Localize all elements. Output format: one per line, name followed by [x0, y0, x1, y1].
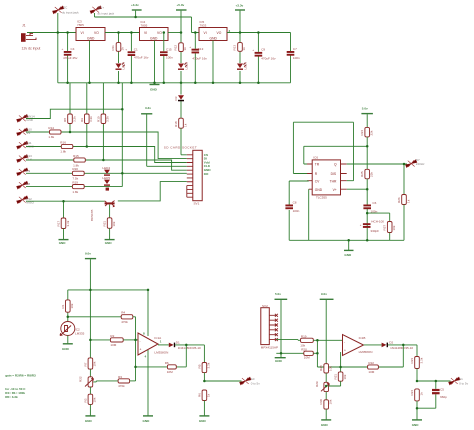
resistor R24p output bottom	[410, 389, 423, 420]
svg-text:+: +	[252, 48, 254, 52]
wire LM335 node row	[68, 316, 121, 318]
pin D13 CLK	[17, 154, 33, 162]
svg-text:10M: 10M	[110, 343, 116, 347]
svg-text:D8: D8	[26, 182, 30, 186]
resistor R13 with LED6 indicator column on +3.3v rail	[233, 33, 247, 83]
pin DC- dc input jack	[53, 6, 80, 15]
ground symbol under LM335	[62, 344, 73, 351]
svg-text:3.3k: 3.3k	[66, 220, 70, 226]
wire IC4 output to +5.0v rail	[168, 32, 181, 34]
svg-text:10k: 10k	[93, 397, 97, 402]
svg-text:GND: GND	[199, 419, 207, 423]
svg-text:R12: R12	[174, 45, 178, 51]
svg-text:+: +	[344, 348, 346, 352]
svg-text:470uF 16v: 470uF 16v	[134, 56, 149, 60]
svg-text:SS: SS	[26, 131, 30, 135]
svg-text:LED5: LED5	[102, 176, 110, 180]
ground symbol under R21	[105, 240, 115, 246]
svg-text:R11: R11	[111, 45, 115, 51]
capacitor C10 470uF 16v on IC5 input	[189, 33, 207, 83]
wire D12 MISO to transistor	[26, 200, 105, 202]
pin D7 220Hz	[406, 158, 425, 167]
svg-text:GND: GND	[315, 188, 323, 192]
svg-text:D1: D1	[176, 341, 180, 345]
svg-text:GND: GND	[105, 241, 113, 245]
svg-text:+3.3v: +3.3v	[236, 3, 244, 7]
svg-text:100n: 100n	[166, 56, 173, 60]
junction dots 555	[366, 145, 369, 148]
resistor R19p 10k input	[300, 334, 342, 347]
junction dots temp block	[89, 289, 92, 292]
svg-text:LED4: LED4	[102, 166, 110, 170]
svg-text:3.3k: 3.3k	[89, 116, 93, 122]
svg-text:GND: GND	[321, 423, 329, 427]
wire 555 output Q to D7	[347, 163, 407, 165]
resistor R25	[347, 169, 374, 189]
svg-text:GND: GND	[275, 359, 283, 363]
svg-text:10k: 10k	[329, 399, 333, 404]
resistor R26 on output	[397, 164, 410, 240]
svg-text:7805: 7805	[77, 23, 84, 27]
resistor R16 1.8k	[26, 140, 187, 162]
svg-text:gain = R2/R6 = R8/R3: gain = R2/R6 = R8/R3	[5, 374, 36, 378]
svg-text:V+: V+	[333, 188, 337, 192]
svg-text:22k: 22k	[370, 130, 374, 135]
wire transistor collector to SD DO pin	[118, 182, 187, 201]
resistor R30 divider bottom pressure	[319, 399, 332, 420]
op-amp IC1A LM358	[138, 290, 168, 416]
svg-text:+: +	[189, 45, 191, 49]
svg-text:R22: R22	[78, 376, 82, 382]
svg-text:R6= 3.3k: R6= 3.3k	[5, 395, 18, 399]
resistor R10 3.3k pulldown	[96, 83, 109, 160]
svg-text:LM358ON: LM358ON	[359, 350, 373, 354]
svg-text:R1: R1	[61, 304, 65, 308]
resistor R2 10M	[110, 334, 138, 347]
svg-text:Q: Q	[334, 163, 337, 167]
svg-text:C6: C6	[372, 201, 376, 205]
resistor R24	[360, 127, 373, 169]
svg-text:220Hz: 220Hz	[416, 162, 425, 166]
svg-text:1N4148DO35-10: 1N4148DO35-10	[390, 346, 413, 350]
svg-text:LED6: LED6	[244, 62, 248, 70]
svg-text:R7: R7	[83, 362, 87, 366]
capacitor C8 100n on CV	[285, 181, 308, 240]
svg-text:dc input jack: dc input jack	[98, 11, 115, 15]
LED LED2	[178, 62, 189, 70]
svg-text:-: -	[140, 339, 141, 343]
svg-text:660p: 660p	[440, 395, 447, 399]
op-amp IC1B LM358	[343, 335, 373, 356]
resistor R19 1.8k	[26, 181, 122, 194]
svg-text:+: +	[140, 347, 142, 351]
svg-text:3.3k: 3.3k	[419, 357, 423, 363]
resistor R27 trim branch	[383, 222, 396, 241]
svg-text:10M: 10M	[167, 370, 173, 374]
svg-text:470k: 470k	[121, 320, 128, 324]
svg-text:GND: GND	[150, 88, 158, 92]
svg-text:C4: C4	[71, 47, 75, 51]
svg-text:C9: C9	[261, 48, 265, 52]
svg-text:+: +	[62, 47, 64, 51]
resistor R4 470k	[121, 311, 135, 324]
svg-text:R29: R29	[315, 381, 319, 387]
ground symbol under R24p	[412, 420, 422, 427]
wire to A1 output pin	[417, 380, 451, 382]
capacitor C4 470uF 25v	[62, 33, 78, 83]
svg-text:1.8k: 1.8k	[60, 150, 66, 154]
wire IC5 output to +3.3v rail	[227, 32, 291, 34]
svg-text:470uF 16v: 470uF 16v	[261, 56, 276, 60]
svg-text:HCH-100: HCH-100	[371, 219, 384, 223]
sensor connector SV2 MPX4115AP	[261, 304, 278, 350]
trimmer R29 pressure offset pot	[315, 381, 340, 400]
wire SV2 output to R19p row	[276, 339, 300, 342]
svg-text:R18: R18	[174, 121, 178, 127]
pin A0 0 to 5v	[240, 377, 261, 385]
svg-text:R23: R23	[410, 358, 414, 364]
svg-text:10k: 10k	[112, 221, 116, 226]
svg-text:12v dc input: 12v dc input	[22, 46, 41, 50]
svg-text:R10: R10	[96, 116, 100, 122]
svg-text:470k: 470k	[118, 384, 125, 388]
svg-text:R3: R3	[118, 375, 122, 379]
pin PIN14 GND	[17, 114, 35, 122]
power +3.3v supply symbol (left)	[131, 3, 142, 17]
svg-text:5.0v: 5.0v	[362, 106, 368, 110]
resistor R3v divider bottom	[83, 394, 96, 415]
ground symbol under IC1A	[143, 416, 154, 423]
wire feedback loop pressure	[402, 345, 404, 367]
resistor R5	[197, 345, 210, 381]
svg-text:D9: D9	[26, 169, 30, 173]
annotation notes green	[5, 374, 36, 400]
wire inverting node vertical pressure	[316, 340, 318, 367]
svg-text:C15: C15	[166, 47, 172, 51]
wire IC4 GND pin to ground symbol	[154, 41, 156, 85]
svg-text:100n: 100n	[293, 209, 300, 213]
LED LED4	[102, 166, 110, 176]
svg-text:1.8k: 1.8k	[72, 190, 78, 194]
resistor R17	[57, 201, 70, 239]
wire SV2 gnd pin down	[276, 341, 281, 354]
local ground bus 555	[289, 239, 404, 241]
svg-text:5.0v: 5.0v	[275, 292, 281, 296]
resistor R1	[61, 290, 74, 322]
resistor R28 divider top pressure	[319, 364, 332, 383]
svg-text:R14: R14	[48, 126, 54, 130]
svg-text:R21: R21	[334, 374, 338, 380]
svg-text:10k: 10k	[392, 225, 396, 230]
svg-text:+: +	[125, 47, 127, 51]
capacitor C6 100n timing	[363, 189, 377, 240]
svg-text:dc input jack: dc input jack	[62, 11, 79, 15]
svg-text:VI: VI	[144, 31, 147, 35]
svg-text:R19: R19	[301, 334, 307, 338]
pin D8	[17, 181, 31, 189]
svg-text:1: 1	[160, 339, 162, 343]
svg-text:R13: R13	[233, 45, 237, 51]
voltage regulator IC3 7805	[76, 19, 105, 40]
svg-text:+5.0v: +5.0v	[177, 3, 185, 7]
svg-text:4: 4	[145, 355, 147, 359]
svg-text:MPX4115AP: MPX4115AP	[261, 346, 278, 350]
capacitor C7 100n	[287, 33, 300, 83]
ground symbol under divider	[85, 416, 96, 423]
voltage regulator IC5 7933	[199, 20, 231, 41]
svg-text:9.0v: 9.0v	[321, 292, 327, 296]
svg-text:8: 8	[143, 331, 145, 335]
junction dots top section	[57, 31, 60, 34]
wire trigger net loop	[304, 146, 367, 164]
ground symbol under R6	[199, 416, 210, 423]
svg-text:R8: R8	[63, 118, 67, 122]
svg-text:10M: 10M	[368, 370, 374, 374]
svg-text:10k: 10k	[93, 361, 97, 366]
LED LED6	[237, 62, 248, 70]
power 5.0v supply symbol for 555	[361, 106, 373, 127]
svg-text:C8: C8	[293, 200, 297, 204]
resistor R18 on SD supply column	[174, 118, 187, 155]
resistor R22p 10M feedback	[317, 361, 403, 374]
wire IC3 output to IC4 input	[105, 32, 140, 34]
svg-text:C1: C1	[134, 47, 138, 51]
resistor R14 1.8k	[26, 126, 187, 159]
wire 555 GND pin down to local ground bus	[308, 189, 310, 240]
svg-text:R16: R16	[60, 140, 66, 144]
svg-text:1k: 1k	[419, 392, 423, 396]
svg-text:VI: VI	[81, 31, 84, 35]
svg-text:1k: 1k	[183, 123, 187, 127]
svg-text:R30: R30	[319, 399, 323, 405]
svg-text:GND: GND	[150, 37, 158, 41]
resistor R12 with LED2 indicator column on +5.0v rail	[174, 43, 188, 83]
svg-text:R27: R27	[383, 225, 387, 231]
svg-text:R28: R28	[319, 365, 323, 371]
ground symbol under IC4	[150, 85, 160, 92]
svg-text:DC+: DC+	[98, 6, 104, 10]
wire threshold net upper loop	[293, 122, 353, 181]
svg-text:CV: CV	[315, 179, 320, 183]
trimmer R22 offset pot	[78, 376, 118, 394]
resistor R9 3.3k pulldown	[80, 83, 93, 147]
svg-text:DIS: DIS	[331, 172, 337, 176]
svg-text:D3: D3	[174, 96, 178, 100]
diode D1 1N4148	[169, 341, 205, 351]
svg-text:C5: C5	[440, 388, 444, 392]
power +3.3v supply symbol (right)	[235, 3, 245, 32]
svg-text:R5: R5	[197, 364, 201, 368]
pin A1 0 to 5v	[449, 377, 469, 385]
svg-text:R24: R24	[410, 390, 414, 396]
svg-text:R15: R15	[73, 154, 79, 158]
svg-text:100n: 100n	[293, 56, 300, 60]
resistor R7 divider top	[83, 358, 96, 377]
svg-text:VO: VO	[157, 31, 162, 35]
capacitor C9 470uF 16v	[252, 33, 276, 83]
svg-text:GND: GND	[85, 419, 93, 423]
resistor R20 7.5k	[26, 167, 187, 180]
svg-text:LM335: LM335	[75, 332, 85, 336]
wire feedback loop down	[185, 345, 187, 367]
svg-text:470uF 16v: 470uF 16v	[192, 56, 207, 60]
junction dots SD section	[121, 108, 124, 111]
svg-text:+: +	[360, 223, 362, 227]
svg-text:+3.3v: +3.3v	[131, 3, 139, 7]
svg-text:R2: R2	[110, 334, 114, 338]
svg-text:IC6: IC6	[313, 156, 318, 160]
svg-text:R22: R22	[368, 361, 374, 365]
transistor Q1 BC547	[90, 201, 115, 221]
svg-text:GND: GND	[143, 419, 151, 423]
connector J1 dc power jack	[21, 23, 40, 50]
voltage regulator IC4 7805	[140, 20, 169, 41]
capacitor C15 100n	[160, 33, 173, 83]
resistor R8 3.3k pulldown	[63, 83, 76, 132]
svg-text:R21: R21	[103, 221, 107, 227]
svg-text:R6: R6	[165, 361, 169, 365]
svg-text:GND: GND	[210, 37, 218, 41]
resistor R21	[103, 218, 116, 239]
LED LED3	[116, 62, 126, 70]
pin D11 MOSI	[17, 141, 35, 149]
svg-text:LM358ON: LM358ON	[154, 351, 168, 355]
svg-text:R25: R25	[360, 171, 364, 177]
svg-text:THR: THR	[330, 179, 337, 183]
diode D2 1N4148	[382, 340, 417, 350]
svg-text:R9: R9	[80, 118, 84, 122]
svg-text:GND: GND	[412, 423, 420, 427]
svg-text:VO: VO	[94, 31, 99, 35]
svg-text:10k: 10k	[329, 366, 333, 371]
svg-text:SV1: SV1	[194, 201, 200, 205]
svg-text:330pF: 330pF	[370, 229, 379, 233]
ground symbol 555	[344, 240, 354, 257]
wire DC+ feed line to IC5 input	[95, 13, 200, 33]
svg-text:R24: R24	[360, 130, 364, 136]
capacitor C1 470uF 16v	[125, 33, 149, 83]
svg-text:R17: R17	[57, 221, 61, 227]
wire inverting node vertical	[135, 317, 137, 381]
LED LED5	[102, 176, 110, 191]
wire 9v rail horizontal	[68, 289, 148, 291]
svg-text:LED2: LED2	[185, 62, 189, 70]
svg-text:VI: VI	[204, 31, 207, 35]
svg-text:SD CARD SOCKET: SD CARD SOCKET	[164, 146, 197, 150]
ground bus horizontal	[58, 82, 291, 84]
ground symbol under pressure divider	[321, 420, 331, 427]
connector SV1 SD card socket	[164, 146, 212, 206]
svg-text:1.8k: 1.8k	[48, 135, 54, 139]
svg-text:D2: D2	[389, 340, 393, 344]
wire ground column from bus to led rows	[121, 83, 123, 187]
svg-text:0 to 5v: 0 to 5v	[251, 381, 261, 385]
svg-text:1k: 1k	[242, 47, 246, 51]
wire R2 input row	[90, 339, 110, 341]
svg-text:GND: GND	[62, 347, 70, 351]
wire PIN14 to ground column	[26, 109, 122, 118]
svg-text:1N4148DO35-10: 1N4148DO35-10	[178, 346, 201, 350]
pin D12 MISO	[17, 196, 35, 205]
resistor R21p offset feed vertical	[328, 352, 347, 386]
timer IC7 TLC555	[307, 156, 347, 200]
svg-text:R4: R4	[121, 311, 125, 315]
wire IC5 GND pin to ground bus	[212, 41, 214, 83]
svg-text:TR: TR	[315, 163, 320, 167]
junction dots pressure block	[316, 339, 319, 342]
wire DC- down to main rail and ground bus	[57, 13, 59, 83]
svg-text:3.3k: 3.3k	[207, 362, 211, 368]
svg-text:1k: 1k	[183, 47, 187, 51]
wire IC1A output row	[158, 344, 169, 346]
resistor R3 470k offset feed	[118, 375, 135, 388]
resistor R20p 10M	[281, 347, 317, 359]
svg-text:22k: 22k	[370, 172, 374, 177]
power 9.0v supply symbol temp block	[85, 252, 96, 358]
ground symbol under SV2	[275, 353, 286, 363]
pin D10 SS	[17, 127, 33, 135]
svg-text:R20: R20	[301, 347, 307, 351]
svg-text:R19: R19	[72, 181, 78, 185]
svg-text:R3: R3	[83, 398, 87, 402]
pin DC+ dc input jack	[90, 6, 115, 16]
power 3.3v supply symbol for SD card	[141, 106, 187, 166]
svg-text:0 to 5v: 0 to 5v	[459, 381, 469, 385]
wire jack to IC3 VI	[27, 32, 76, 34]
svg-text:IC1B: IC1B	[359, 336, 366, 340]
svg-text:9.0v: 9.0v	[85, 252, 91, 256]
svg-text:GND: GND	[59, 241, 67, 245]
svg-text:LED3: LED3	[122, 62, 126, 70]
svg-text:C7: C7	[293, 47, 297, 51]
svg-text:BC547B: BC547B	[90, 210, 94, 221]
resistor R6 output divider	[197, 390, 210, 416]
svg-text:DO: DO	[204, 172, 209, 176]
svg-text:R26: R26	[397, 197, 401, 203]
resistor R6f 10M feedback	[136, 361, 187, 374]
svg-text:1k: 1k	[121, 47, 125, 51]
power 9.0v supply symbol pressure block	[320, 292, 334, 364]
svg-text:C13: C13	[198, 47, 204, 51]
capacitor C11 330pF trim branch	[360, 213, 390, 233]
svg-text:GND: GND	[344, 253, 352, 257]
resistor R15 1.8k	[26, 154, 187, 170]
power 5.0v supply symbol pressure block	[275, 292, 288, 353]
pin D9	[17, 168, 31, 176]
svg-text:3.3k: 3.3k	[106, 116, 110, 122]
svg-text:GND: GND	[87, 37, 95, 41]
svg-text:TLC555: TLC555	[316, 195, 327, 199]
resistor R11 with LED3 indicator column	[111, 33, 125, 83]
svg-text:-: -	[344, 340, 345, 344]
svg-text:10k: 10k	[343, 374, 347, 379]
svg-text:J1: J1	[22, 23, 26, 27]
svg-text:3.3v: 3.3v	[145, 106, 151, 110]
temperature sensor IC2 LM335	[60, 322, 85, 344]
wire to A0 output pin	[204, 380, 241, 382]
wire IC1B output row	[364, 344, 382, 346]
svg-text:10k: 10k	[70, 303, 74, 308]
ground symbol under R17	[59, 240, 69, 246]
wire IC3 GND pin to ground bus	[89, 41, 91, 83]
svg-text:3.3k: 3.3k	[72, 116, 76, 122]
capacitor C5 filter	[417, 381, 447, 408]
resistor R23 output top	[410, 345, 423, 381]
power +5.0v supply symbol	[176, 3, 187, 43]
svg-text:VO: VO	[217, 31, 222, 35]
svg-text:1k: 1k	[207, 393, 211, 397]
svg-text:R20: R20	[72, 167, 78, 171]
